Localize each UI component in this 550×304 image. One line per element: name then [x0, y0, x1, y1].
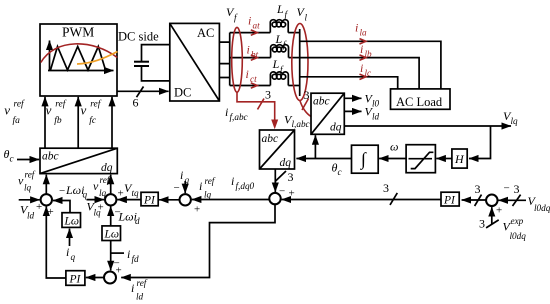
label Lf b — [275, 32, 288, 50]
svg-text:AC Load: AC Load — [396, 95, 443, 109]
svg-text:q: q — [71, 252, 76, 262]
svg-text:abc: abc — [313, 96, 330, 108]
svg-text:i: i — [360, 61, 363, 75]
svg-text:PI: PI — [143, 195, 156, 207]
tick i_fd — [111, 252, 124, 254]
svg-text:L: L — [272, 57, 280, 71]
wire Lw2 down to junction — [110, 241, 112, 271]
stub V_lq input — [87, 199, 105, 201]
label Vf — [226, 5, 238, 23]
chevron i_la — [360, 39, 366, 44]
stub V_ld input — [19, 199, 40, 201]
svg-text:tq: tq — [132, 188, 140, 198]
label i_q — [66, 245, 76, 262]
Lw block 2 — [102, 226, 121, 241]
svg-text:+: + — [118, 188, 124, 200]
svg-text:i: i — [180, 168, 183, 182]
abc-dq block (voltage) U-Vl — [311, 93, 344, 134]
wire PI1 to v_ld junction — [46, 206, 66, 278]
svg-text:abc: abc — [262, 133, 279, 145]
svg-text:6: 6 — [133, 96, 139, 110]
red wire V_l,abc from Vl ellipse to abc-dq block — [300, 101, 311, 117]
label V_lq — [87, 200, 102, 218]
theta_c input — [4, 147, 14, 164]
inductor Lf phase b — [271, 45, 289, 58]
svg-text:ld: ld — [27, 211, 35, 221]
svg-text:−: − — [504, 183, 510, 195]
svg-text:i: i — [247, 43, 250, 57]
H block — [452, 149, 467, 168]
svg-text:q: q — [83, 190, 88, 200]
svg-text:dq: dq — [101, 162, 113, 174]
label i_f,abc — [225, 105, 248, 122]
label V_l0dq — [528, 194, 550, 213]
svg-text:ω: ω — [390, 140, 398, 154]
svg-text:la: la — [360, 28, 368, 38]
wire H to limiter — [436, 158, 452, 160]
svg-text:l,abc: l,abc — [292, 119, 310, 129]
svg-text:+: + — [194, 204, 200, 216]
label i_lq^ref — [199, 176, 216, 200]
wire vfa ref into PWM — [44, 97, 46, 148]
label V_l,abc — [284, 113, 310, 130]
svg-text:i: i — [131, 281, 134, 295]
PWM red sine — [41, 44, 117, 63]
svg-text:3: 3 — [475, 182, 481, 196]
svg-text:ref: ref — [100, 175, 111, 185]
chevron i_bt — [251, 55, 257, 60]
chevron i_ct — [251, 83, 257, 88]
wire vfb ref into PWM — [77, 97, 79, 148]
integrator block — [352, 145, 379, 173]
svg-text:ref: ref — [90, 99, 102, 110]
wire v_lq ref out — [110, 175, 112, 194]
svg-text:fb: fb — [54, 115, 62, 126]
svg-text:fc: fc — [89, 115, 97, 126]
phase line b — [230, 57, 271, 59]
PWM triangle carrier — [51, 47, 106, 71]
svg-text:ref: ref — [25, 170, 36, 180]
wire v_ld ref out — [45, 175, 47, 194]
slash 3 — [475, 195, 482, 206]
load line a — [300, 41, 441, 89]
Vl measurement ellipse — [292, 24, 308, 101]
PWM yellow sine — [77, 52, 118, 65]
label i_at — [248, 14, 260, 31]
summing junction i_q — [180, 194, 191, 205]
label v_lq^ref right — [93, 175, 111, 198]
wire Lw1 up-left to v_ld junction — [53, 201, 70, 213]
svg-text:dq: dq — [280, 157, 292, 169]
summing junction i_f,dq0 — [269, 193, 280, 204]
label theta_c — [332, 161, 342, 178]
svg-text:i: i — [127, 247, 130, 261]
AC Load block — [391, 89, 451, 109]
svg-text:at: at — [253, 21, 261, 31]
label v_fc^ref — [81, 99, 102, 127]
svg-text:−: − — [59, 185, 65, 197]
arrow V_l0 — [344, 97, 361, 99]
svg-text:i: i — [355, 21, 358, 35]
wire i_f,dq0 junction to i_q junction — [192, 199, 269, 201]
label i_fd — [127, 247, 139, 264]
label V_ld — [365, 105, 380, 122]
svg-text:exp: exp — [511, 216, 524, 226]
abc-dq block (reference) — [40, 148, 117, 174]
svg-text:ref: ref — [14, 99, 26, 110]
svg-text:l0dq: l0dq — [510, 231, 527, 241]
PI block (voltage outer) — [441, 192, 459, 206]
label Lf c — [272, 57, 284, 75]
svg-text:f,dq0: f,dq0 — [236, 181, 255, 191]
svg-text:+: + — [289, 188, 295, 200]
inductor Lf phase c — [270, 72, 288, 86]
svg-text:+: + — [36, 201, 42, 213]
label i_lc — [360, 61, 371, 78]
wire theta_c to abc-dq blocks — [296, 158, 351, 160]
svg-text:ld: ld — [136, 292, 144, 302]
svg-text:v: v — [81, 103, 87, 118]
svg-text:L: L — [275, 32, 283, 46]
svg-text:i: i — [199, 179, 202, 193]
load line b — [300, 58, 419, 89]
label i_f,dq0 — [231, 174, 255, 191]
wire junction to PI q — [159, 199, 179, 201]
red wire i_f,abc from Vf ellipse to abc-dq block — [237, 92, 275, 120]
wire i_ld^ref route from i_f,dq0 junction to bottom junction — [121, 204, 275, 277]
svg-text:abc: abc — [42, 151, 59, 163]
svg-text:l0: l0 — [372, 99, 380, 109]
wire vfc ref into PWM — [111, 97, 113, 148]
svg-text:L: L — [276, 2, 284, 16]
label Lwi_d — [118, 210, 141, 227]
label Lf a — [276, 2, 289, 20]
svg-text:i: i — [248, 14, 251, 28]
wire theta_c — [17, 159, 39, 161]
svg-text:DC: DC — [174, 86, 191, 100]
label i_ld^ref — [131, 278, 148, 302]
svg-text:3: 3 — [304, 88, 310, 102]
svg-text:ref: ref — [205, 176, 216, 186]
slash 3 — [275, 171, 286, 181]
inductor Lf phase a — [270, 20, 288, 33]
bus at converter output — [229, 33, 231, 86]
svg-text:lq: lq — [99, 188, 107, 198]
chevron i_at — [251, 30, 257, 35]
arrow V_ld — [344, 110, 361, 112]
svg-text:Lω: Lω — [104, 229, 120, 241]
svg-text:ref: ref — [55, 99, 67, 110]
summing junction V_l0dq — [486, 195, 498, 207]
svg-text:i: i — [66, 245, 69, 259]
svg-text:−: − — [174, 182, 180, 194]
slash 3 mid wire — [390, 193, 397, 205]
label v_lq^ref left — [18, 170, 36, 193]
label V_lq — [503, 109, 518, 126]
limiter block — [406, 145, 435, 173]
capacitor C wires — [142, 45, 170, 81]
svg-text:lq: lq — [204, 190, 212, 200]
svg-text:lq: lq — [511, 116, 519, 126]
wire theta_c branch up — [314, 135, 316, 158]
PI block (q current) — [141, 192, 158, 206]
svg-text:ref: ref — [137, 278, 148, 288]
label i_bt — [247, 43, 259, 60]
wire PI to v junction — [117, 199, 141, 201]
wire i_f,dq0 out of block — [274, 169, 276, 192]
label v_fa^ref — [4, 99, 25, 127]
svg-text:+: + — [496, 205, 502, 217]
wire V_lq — [344, 125, 511, 127]
label i_la — [355, 21, 367, 38]
svg-text:i: i — [246, 67, 249, 81]
svg-text:PI: PI — [443, 195, 456, 207]
Vf measurement ellipse — [232, 27, 243, 92]
svg-text:ld: ld — [372, 112, 380, 122]
Lw block 1 — [62, 213, 81, 228]
PI block 1 (d current) — [66, 271, 85, 286]
converter DC/AC block — [170, 23, 220, 101]
svg-text:f,abc: f,abc — [230, 112, 248, 122]
svg-text:l0dq: l0dq — [534, 203, 550, 213]
chevron i_lb — [360, 55, 366, 60]
red slash 3 on V_l,abc — [302, 99, 309, 111]
PWM waveform x-axis — [48, 70, 114, 72]
svg-text:3: 3 — [383, 181, 389, 195]
svg-text:3: 3 — [514, 182, 520, 196]
svg-text:c: c — [10, 154, 14, 164]
converter output stubs — [219, 42, 229, 77]
svg-text:dq: dq — [330, 122, 342, 134]
wire junction to PI1 — [86, 277, 104, 279]
red slash 3 on i_f,abc — [258, 99, 265, 110]
svg-text:PI: PI — [69, 274, 82, 286]
wire V_l0dq input — [498, 199, 526, 201]
PWM block — [40, 24, 117, 96]
label Vl — [297, 5, 308, 23]
svg-text:PWM: PWM — [62, 25, 94, 40]
bus at Vl — [299, 29, 301, 96]
svg-text:i: i — [360, 42, 363, 56]
svg-text:i: i — [225, 105, 228, 119]
chevron i_lc — [360, 74, 366, 79]
svg-text:fa: fa — [13, 115, 21, 126]
wire limiter to integrator — [379, 158, 406, 160]
abc-dq block (current) — [260, 130, 295, 169]
label V_tq — [124, 181, 139, 198]
label i_lb — [360, 42, 372, 59]
svg-text:+: + — [116, 265, 122, 277]
wire i_q into junction — [184, 181, 186, 193]
label i_q (current q) — [180, 168, 190, 185]
wire 6 PWM to converter — [117, 90, 169, 92]
slash — [486, 220, 499, 228]
svg-text:d: d — [135, 216, 140, 226]
label -Lwi_q — [59, 183, 88, 200]
wire Lw2 to v junction — [110, 206, 112, 226]
wire junction to PI — [462, 199, 487, 201]
svg-text:3: 3 — [265, 88, 271, 102]
wire i_q into Lw1 — [69, 229, 71, 246]
phase line c — [230, 85, 271, 87]
load line c — [300, 77, 398, 89]
svg-text:Lω: Lω — [64, 216, 80, 228]
svg-text:l: l — [305, 13, 308, 23]
svg-text:3: 3 — [479, 217, 485, 231]
summing junction i_ld — [104, 272, 116, 284]
phase line a — [230, 32, 271, 34]
svg-text:v: v — [46, 103, 52, 118]
svg-text:DC side: DC side — [118, 30, 159, 44]
label V_ld — [20, 203, 35, 221]
svg-text:AC: AC — [197, 26, 214, 40]
svg-text:3: 3 — [288, 170, 294, 184]
svg-text:v: v — [4, 103, 10, 118]
svg-text:+: + — [98, 202, 104, 214]
label v_fb^ref — [46, 99, 67, 127]
label i_ct — [246, 67, 258, 84]
svg-text:i: i — [231, 174, 234, 188]
svg-text:+: + — [48, 206, 54, 218]
svg-text:H: H — [454, 152, 465, 166]
wire V_lq branch down to H — [469, 126, 491, 159]
summing junction v_ld — [41, 194, 52, 205]
svg-text:lq: lq — [24, 183, 32, 193]
label V_l0dq^exp — [503, 216, 527, 241]
PWM waveform y-axis — [49, 41, 51, 71]
slash 6 — [137, 87, 144, 98]
svg-text:c: c — [338, 167, 342, 177]
svg-text:fd: fd — [132, 254, 140, 264]
wire PI to i_f,dq0 junction — [282, 199, 441, 201]
capacitor plates — [134, 61, 149, 63]
summing junction v_lq — [105, 194, 116, 205]
label V_l0 — [365, 92, 380, 109]
wire V_l0dq exp input — [491, 207, 493, 224]
slash — [513, 195, 521, 206]
